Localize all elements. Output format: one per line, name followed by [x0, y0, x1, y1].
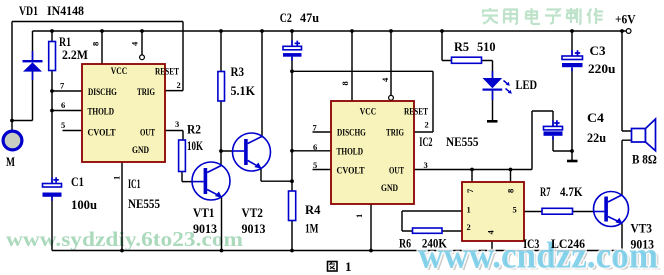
svg-text:VT2: VT2 — [242, 205, 264, 220]
capacitor C2 — [283, 40, 302, 60]
wire IC3 pin7 — [471, 170, 473, 183]
ground bar LED — [487, 120, 498, 123]
svg-text:220u: 220u — [588, 61, 616, 76]
svg-text:NE555: NE555 — [128, 196, 160, 211]
LED — [483, 71, 512, 100]
wire R3 branch / VT1 collector / VT2 base node — [221, 31, 233, 165]
wire R6 to IC3 pin2 — [442, 230, 462, 232]
watermark 实用电子制作 — [482, 8, 603, 24]
svg-text:DISCHG: DISCHG — [88, 88, 117, 98]
svg-text:9013: 9013 — [193, 221, 217, 236]
terminal reset IC2 pin4 — [389, 95, 394, 100]
svg-text:R7: R7 — [540, 184, 551, 199]
wire C2 branch — [291, 31, 293, 71]
svg-text:5.1K: 5.1K — [231, 83, 256, 98]
resistor R4 — [289, 191, 296, 221]
wire LED cathode to ground — [492, 91, 494, 121]
svg-text:1: 1 — [467, 205, 471, 215]
pin numbers upright — [60, 80, 517, 232]
wire IC1 pin8 VCC — [101, 31, 103, 64]
wire mic junction to diode — [12, 72, 33, 121]
svg-text:OUT: OUT — [389, 167, 404, 177]
resistor R3 — [218, 72, 225, 102]
svg-text:1: 1 — [354, 214, 364, 218]
wire C2 bottom across to IC2 TRIG — [292, 71, 433, 132]
wire IC2 pin3 OUT line — [414, 111, 553, 170]
svg-text:9013: 9013 — [242, 221, 266, 236]
svg-text:VCC: VCC — [111, 67, 128, 77]
resistor R1 — [49, 42, 56, 71]
svg-text:8: 8 — [91, 42, 101, 46]
wire IC2 pin7 stub — [313, 131, 332, 133]
svg-text:R6: R6 — [399, 236, 411, 251]
svg-text:THOLD: THOLD — [337, 148, 364, 158]
svg-text:5: 5 — [513, 205, 517, 215]
wire IC3 pin4 GND — [491, 241, 493, 251]
transistor VT2 9013 — [233, 133, 271, 171]
wire VT1 emitter down — [221, 197, 223, 251]
op-amp/timer U3 IC3 LC246 box — [462, 182, 524, 241]
svg-text:+6V: +6V — [615, 12, 636, 27]
wire left vertical to microphone — [11, 22, 13, 132]
terminal reset IC1 pin4 — [140, 55, 145, 60]
wire IC2 pin8 VCC — [351, 31, 353, 101]
svg-text:9013: 9013 — [631, 237, 655, 252]
svg-text:GND: GND — [132, 146, 149, 156]
wire IC2 pin5 stub — [313, 169, 332, 171]
svg-text:R3: R3 — [231, 64, 245, 79]
wire VT2 emitter to R4 node — [261, 168, 292, 181]
svg-text:6: 6 — [61, 100, 65, 110]
transistor VT1 9013 — [192, 162, 230, 200]
svg-text:1: 1 — [345, 259, 352, 274]
wire VT2 collector up — [261, 31, 263, 136]
svg-text:B 8Ω: B 8Ω — [632, 152, 657, 167]
svg-text:IC1: IC1 — [128, 176, 141, 191]
svg-text:IC3: IC3 — [523, 236, 539, 251]
svg-text:6: 6 — [313, 142, 317, 152]
wire C4 bottom to ground node — [553, 137, 572, 152]
svg-text:C4: C4 — [587, 110, 605, 125]
svg-text:240K: 240K — [422, 236, 448, 251]
wire IC2 pin1 GND — [370, 204, 372, 251]
svg-text:CVOLT: CVOLT — [88, 129, 117, 139]
IC2 pin labels — [337, 108, 429, 195]
wire C3 branch — [571, 31, 573, 160]
wire top rail A (mic/TRIG line) — [12, 22, 183, 91]
svg-text:CVOLT: CVOLT — [337, 167, 366, 177]
wire IC1 pin5 stub — [63, 130, 83, 132]
terminal +6V — [626, 29, 631, 34]
svg-text:R4: R4 — [305, 202, 321, 217]
wire R5 branch — [442, 31, 493, 78]
svg-text:2: 2 — [177, 80, 181, 90]
wire IC3 pin8 — [510, 170, 512, 183]
svg-text:5: 5 — [61, 120, 65, 130]
svg-text:IN4148: IN4148 — [47, 3, 84, 18]
svg-text:IC2: IC2 — [419, 134, 432, 149]
wire R4 node vertical — [291, 71, 293, 250]
wire IC1 pin3 OUT to R2 — [165, 131, 183, 141]
svg-text:C1: C1 — [71, 174, 84, 189]
svg-text:510: 510 — [477, 39, 496, 54]
svg-text:VD1: VD1 — [19, 3, 38, 18]
wire IC1 pin6 — [52, 110, 82, 112]
svg-text:1: 1 — [112, 176, 122, 180]
svg-text:22u: 22u — [587, 130, 606, 145]
op-amp/timer U1 IC1 NE555 box — [82, 64, 165, 162]
svg-text:NE555: NE555 — [446, 134, 479, 149]
svg-text:VCC: VCC — [360, 108, 377, 118]
svg-text:TRIG: TRIG — [386, 129, 404, 139]
resistor R6 — [413, 228, 443, 233]
wire IC1 pin7 — [52, 90, 82, 92]
capacitor C4 — [544, 120, 563, 140]
svg-text:4.7K: 4.7K — [560, 184, 583, 199]
svg-text:RESET: RESET — [155, 68, 180, 78]
svg-text:100u: 100u — [71, 197, 97, 212]
microphone M — [3, 131, 22, 150]
svg-text:8: 8 — [340, 81, 350, 85]
svg-text:OUT: OUT — [140, 129, 155, 139]
op-amp/timer U2 IC2 NE555 box — [331, 101, 414, 204]
svg-text:3: 3 — [175, 119, 179, 129]
svg-text:VT1: VT1 — [193, 205, 215, 220]
diode VD1 — [32, 51, 34, 80]
svg-text:2: 2 — [467, 222, 471, 232]
svg-text:RESET: RESET — [404, 108, 429, 118]
svg-text:2.2M: 2.2M — [62, 47, 88, 62]
svg-text:DISCHG: DISCHG — [337, 129, 366, 139]
wire IC3 pin5 to R7 — [524, 211, 542, 213]
svg-text:5: 5 — [313, 160, 317, 170]
svg-text:TRIG: TRIG — [137, 88, 155, 98]
svg-text:R2: R2 — [187, 122, 201, 137]
svg-text:LC246: LC246 — [551, 236, 585, 251]
wire R7 to VT3 base — [573, 211, 594, 213]
wire VT3 emitter to ground rail — [621, 223, 623, 250]
wire bottom ground rail — [52, 250, 622, 252]
wire diode top to +V rail — [32, 31, 34, 61]
transistor VT3 9013 — [594, 192, 629, 227]
svg-text:GND: GND — [381, 184, 398, 194]
svg-text:LED: LED — [516, 77, 538, 92]
wire IC2 pin6 — [292, 150, 331, 152]
resistor R5 — [452, 57, 482, 63]
resistor R2 — [179, 140, 186, 172]
svg-text:47u: 47u — [300, 10, 319, 25]
wire VT3 collector to speaker — [622, 140, 632, 195]
resistor R7 — [542, 208, 573, 214]
pin numbers rotated — [91, 41, 516, 235]
svg-text:3: 3 — [424, 160, 428, 170]
svg-text:THOLD: THOLD — [88, 108, 115, 118]
svg-text:10K: 10K — [187, 138, 204, 153]
wire IC1 pin1 GND — [121, 162, 123, 251]
wire IC1 pin4 RESET — [141, 31, 143, 55]
watermark www.cndzz.com — [418, 236, 661, 275]
svg-text:C3: C3 — [590, 43, 607, 58]
svg-text:2: 2 — [425, 120, 429, 130]
caption tu 1 — [328, 262, 338, 272]
wire IC2 pin4 RESET — [390, 31, 392, 95]
IC1 pin labels — [88, 67, 180, 156]
svg-text:1M: 1M — [305, 221, 319, 236]
capacitor C1 — [43, 177, 62, 201]
capacitor C3 — [562, 50, 583, 71]
svg-text:C2: C2 — [280, 10, 292, 25]
svg-text:VT3: VT3 — [631, 221, 653, 236]
svg-text:R5: R5 — [454, 39, 469, 54]
ground bar C3/C4 — [567, 160, 578, 163]
wire speaker top to +6V rail — [622, 31, 632, 131]
svg-text:8: 8 — [506, 189, 516, 193]
wire R2 bottom to VT1 base — [182, 172, 193, 182]
speaker B — [632, 119, 656, 151]
wire +6V top rail B — [33, 30, 627, 32]
svg-text:M: M — [6, 154, 15, 169]
wire IC3 pin1 to R6 — [402, 211, 462, 231]
wire R1 branch — [51, 31, 53, 251]
